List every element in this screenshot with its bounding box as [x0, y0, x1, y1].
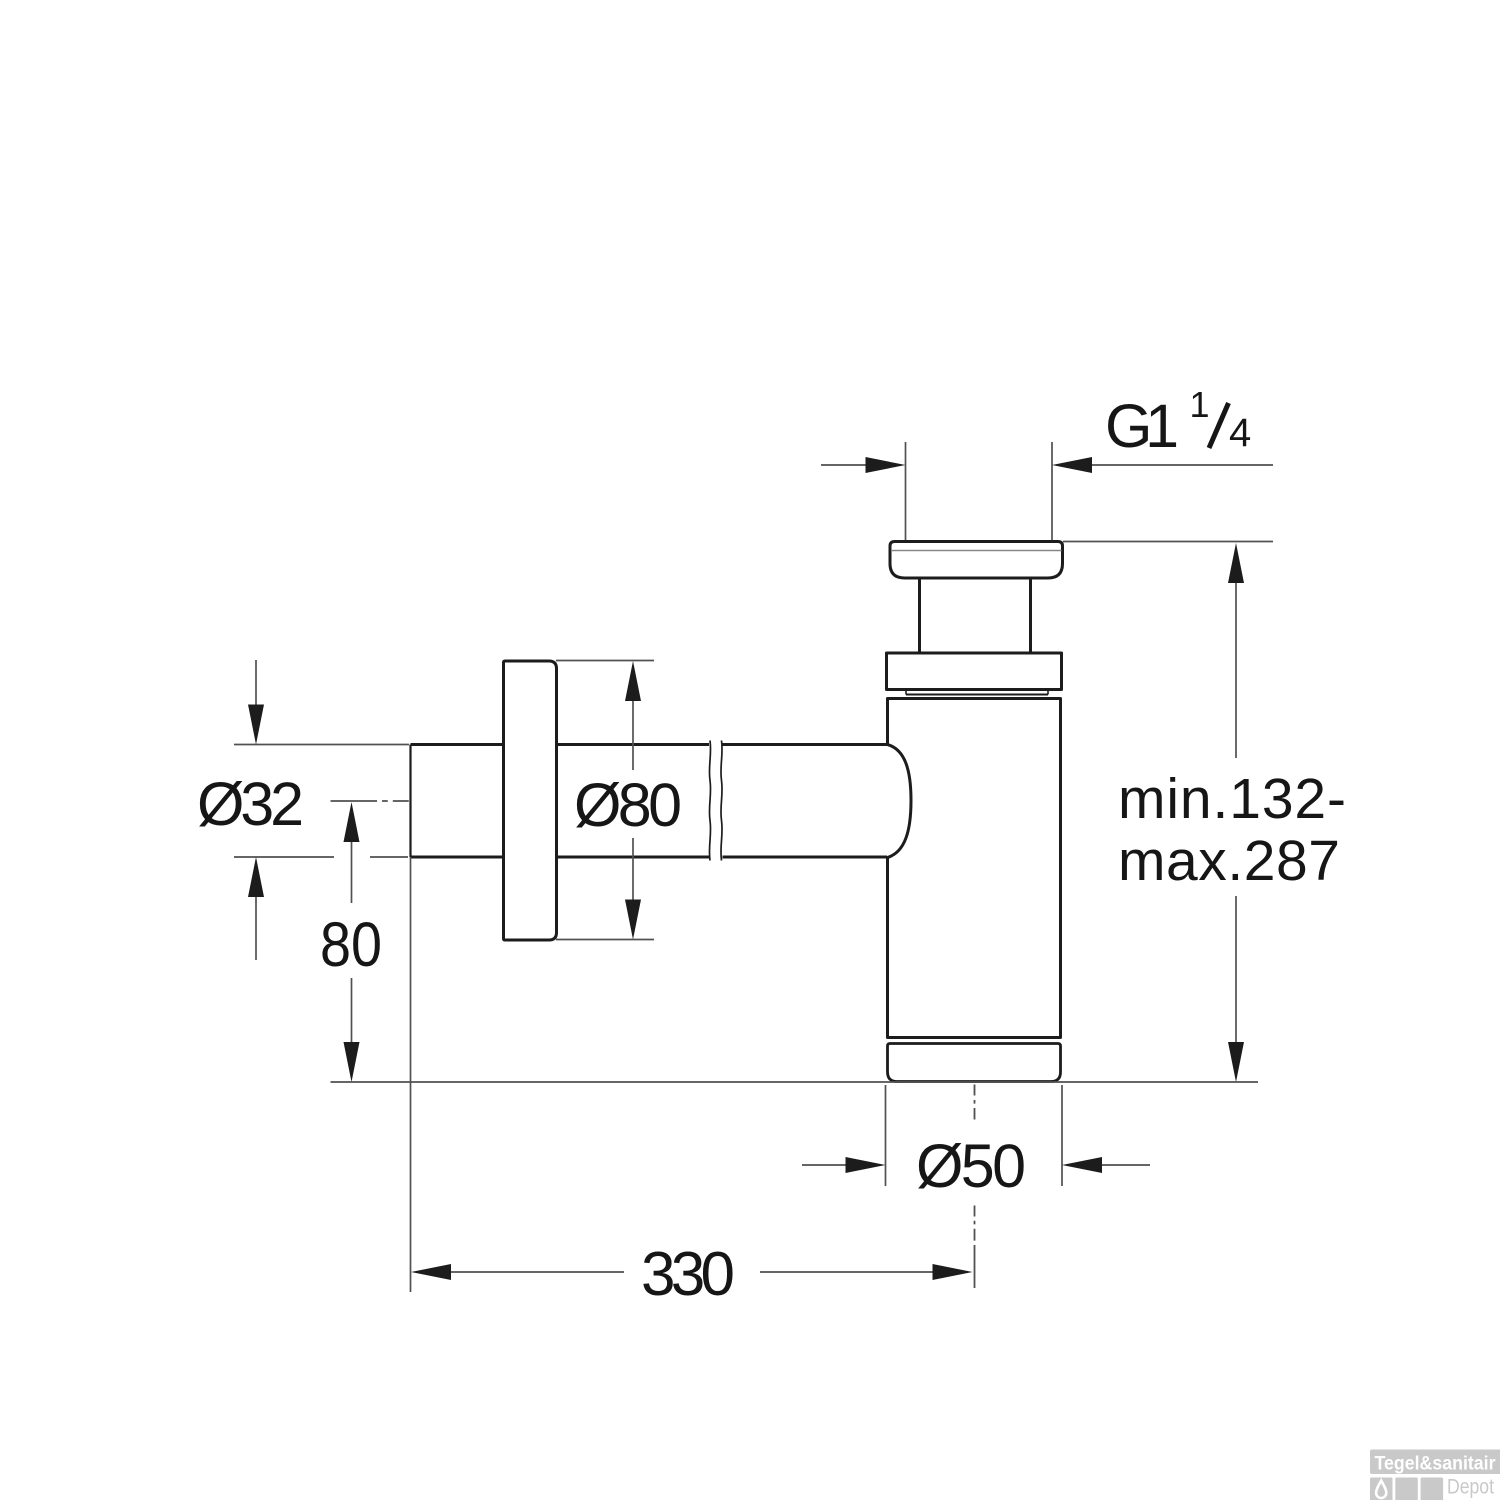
G1 1/4 dimension line right tail: [1090, 464, 1273, 466]
Ø80 dimension line lower: [632, 838, 634, 901]
top flange cap: [890, 542, 1063, 579]
inlet pipe left end: [409, 745, 411, 858]
bottom centerline dash-dot: [974, 1085, 976, 1289]
Ø50 extension line right: [1061, 1085, 1063, 1186]
svg-text:1: 1: [1190, 384, 1210, 425]
neck right line: [1029, 580, 1032, 654]
Ø50 extension line left: [885, 1085, 887, 1186]
arrow min-max top (points up): [1228, 543, 1244, 583]
Ø80 dimension line upper: [632, 698, 634, 770]
pipe break squiggle left: [709, 741, 710, 861]
Ø80 extension line top: [556, 660, 654, 662]
joint tick left: [905, 690, 907, 695]
svg-text:Ø80: Ø80: [574, 771, 682, 839]
watermark square 1: [1370, 1478, 1393, 1500]
arrow Ø32 lower (points up): [248, 857, 264, 897]
min-max dimension line lower segment: [1235, 896, 1237, 1045]
svg-text:Depot: Depot: [1447, 1476, 1494, 1499]
inlet pipe bottom edge (left of break): [411, 856, 710, 859]
svg-text:Ø32: Ø32: [197, 770, 304, 838]
pipe centerline dash-dot: [331, 800, 409, 802]
fraction slash: [1209, 403, 1229, 448]
svg-text:max.287: max.287: [1118, 829, 1340, 893]
watermark square 3: [1421, 1478, 1444, 1500]
330 dimension line right segment: [760, 1271, 935, 1273]
Ø50 dimension tail right: [1100, 1164, 1150, 1166]
Ø32 extension line top: [234, 744, 409, 746]
arrow 330 right (points right): [933, 1264, 973, 1280]
svg-text:G1: G1: [1105, 392, 1179, 460]
svg-text:4: 4: [1229, 411, 1251, 455]
Ø32 dimension line upper: [255, 660, 257, 706]
min-max dimension line upper segment: [1235, 578, 1237, 758]
arrow Ø80 bottom (points down): [625, 900, 641, 940]
body bottom cap: [888, 1044, 1061, 1082]
G1 1/4 extension line left: [905, 442, 907, 540]
trap body with inlet bulge: [888, 699, 1061, 1038]
wall flange (escutcheon): [504, 661, 557, 940]
330 extension line left: [410, 857, 412, 1292]
arrow G1 left (points right): [866, 457, 906, 473]
arrow Ø32 upper (points down): [248, 705, 264, 745]
arrow Ø80 top (points up): [625, 661, 641, 701]
svg-text:min.132-: min.132-: [1118, 767, 1346, 831]
top flange inner line: [891, 550, 1062, 552]
joint tick right: [1047, 690, 1049, 695]
80 dimension line upper: [351, 840, 353, 903]
330 dimension line left segment: [449, 1271, 624, 1273]
arrow G1 right (points left): [1052, 457, 1092, 473]
baseline: [331, 1081, 1259, 1083]
arrow 80 bottom (points down): [344, 1042, 360, 1082]
Ø80 extension line bottom: [556, 939, 654, 941]
Ø32 extension line bottom left: [234, 856, 334, 858]
Ø50 dimension tail left: [802, 1164, 848, 1166]
Ø32 extension line bottom right: [370, 856, 408, 858]
svg-text:Tegel&sanitair: Tegel&sanitair: [1375, 1453, 1496, 1475]
arrow Ø50 left (points right): [846, 1157, 886, 1173]
inlet pipe bottom edge (right of break): [723, 856, 888, 859]
arrow 80 top (points up): [344, 802, 360, 842]
joint line under nut: [906, 694, 1048, 696]
Ø32 dimension line lower: [255, 895, 257, 960]
arrow min-max bottom (points down): [1228, 1042, 1244, 1082]
neck left line: [918, 580, 921, 654]
80 dimension line lower: [351, 978, 353, 1043]
inlet pipe top edge (left of break): [411, 743, 710, 746]
G1 1/4 dimension line left tail: [821, 464, 868, 466]
watermark square 2: [1395, 1478, 1418, 1500]
svg-text:330: 330: [641, 1240, 735, 1309]
pipe break squiggle right: [721, 741, 722, 861]
svg-text:80: 80: [320, 910, 382, 980]
inlet pipe top edge (right of break): [723, 743, 888, 746]
arrow Ø50 right (points left): [1062, 1157, 1102, 1173]
G1 1/4 extension line right: [1051, 442, 1053, 540]
svg-text:Ø50: Ø50: [916, 1132, 1026, 1200]
compression nut: [887, 653, 1062, 690]
arrow 330 left (points left): [411, 1264, 451, 1280]
watermark banner: [1370, 1450, 1500, 1475]
watermark drop icon: [1376, 1481, 1386, 1498]
flange top extension line to right: [1063, 541, 1273, 543]
